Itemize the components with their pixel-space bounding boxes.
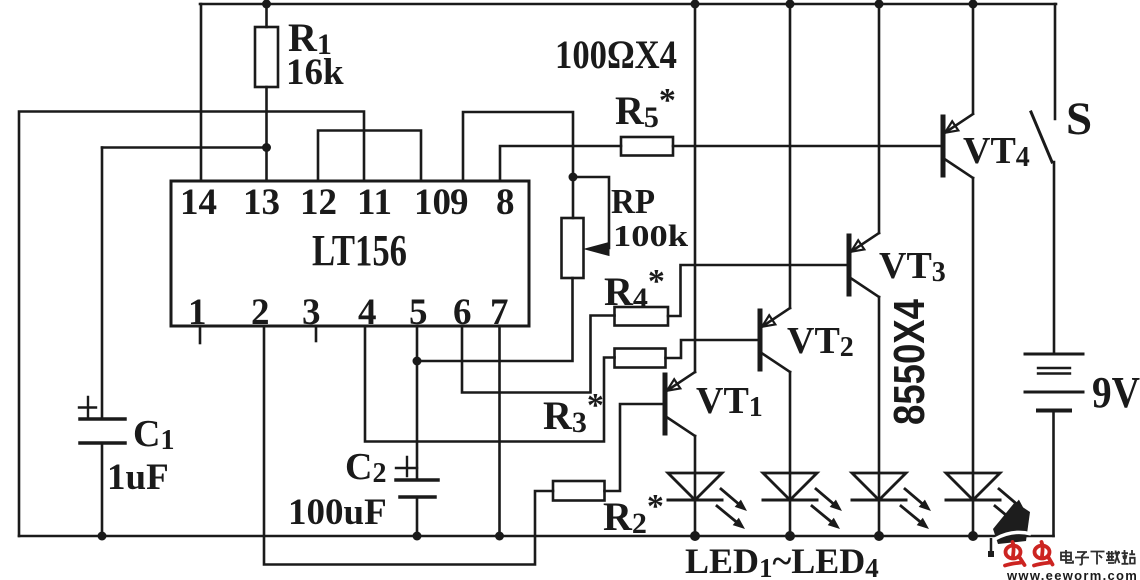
svg-text:R2*: R2* xyxy=(603,488,664,540)
resistor R1 xyxy=(255,4,278,181)
pin 3 stub xyxy=(315,326,318,341)
watermark bug char 2 xyxy=(1034,542,1053,566)
wire VT4 emitter to rail xyxy=(972,4,975,113)
wire pin11 to left rail xyxy=(19,112,364,537)
svg-text:14: 14 xyxy=(180,182,217,223)
svg-text:VT2: VT2 xyxy=(787,320,854,363)
wire VT3 emitter to rail xyxy=(878,4,881,233)
svg-text:R5*: R5* xyxy=(615,82,676,134)
junction R1 bottom / C1 branch xyxy=(262,143,271,152)
wire pin12-pin10 bridge xyxy=(318,131,421,182)
junction C1 on rail xyxy=(98,532,107,541)
svg-text:VT1: VT1 xyxy=(696,380,763,423)
junction LED4 on rail xyxy=(968,531,978,541)
svg-text:13: 13 xyxy=(243,182,280,223)
svg-text:11: 11 xyxy=(357,182,392,223)
svg-text:9V: 9V xyxy=(1092,368,1140,417)
wire RP bottom to pin5 xyxy=(417,278,573,361)
transistor VT3 (PNP 8550) xyxy=(849,233,879,297)
svg-text:RP: RP xyxy=(611,182,655,221)
junction VT2 rail xyxy=(786,0,795,9)
svg-text:R3*: R3* xyxy=(543,387,604,439)
svg-text:2: 2 xyxy=(251,292,270,333)
wire pin14 to top rail xyxy=(200,4,203,181)
watermark bug char 1 xyxy=(1005,542,1025,566)
svg-text:10: 10 xyxy=(414,182,451,223)
pin 1 stub xyxy=(199,326,202,343)
svg-text:www.eeworm.com: www.eeworm.com xyxy=(1006,568,1138,580)
svg-text:LT156: LT156 xyxy=(312,226,407,275)
svg-text:100uF: 100uF xyxy=(288,492,387,533)
LED LED3 xyxy=(852,473,931,536)
wire pin8 to R5 xyxy=(500,146,621,181)
svg-text:100ΩX4: 100ΩX4 xyxy=(555,32,677,77)
junction VT4 rail xyxy=(969,0,978,9)
svg-text:8550X4: 8550X4 xyxy=(885,299,934,425)
wire VT2 collector to LED2 xyxy=(789,372,792,473)
svg-text:9: 9 xyxy=(450,182,469,223)
wire pin2 to R2 left xyxy=(264,326,553,565)
resistor R5 xyxy=(621,137,673,156)
watermark text dianzi xiazai zhan xyxy=(1061,550,1135,565)
wire switch to battery xyxy=(1053,162,1056,352)
switch S top lead xyxy=(1054,4,1057,119)
capacitor C2 xyxy=(396,457,438,536)
svg-text:C2: C2 xyxy=(345,446,386,489)
junction R1 top on rail xyxy=(262,0,271,9)
wire VT4 collector to LED4 xyxy=(972,178,975,473)
resistor R2 xyxy=(553,481,605,501)
wire wiper tap to wiper xyxy=(573,177,609,248)
svg-text:C1: C1 xyxy=(133,413,174,456)
wire C1 top lead xyxy=(101,148,104,420)
wire pin6 to R4 left xyxy=(462,316,615,393)
junction RP wiper tap xyxy=(569,173,578,182)
switch S blade xyxy=(1031,112,1052,162)
junction pin7 on rail xyxy=(495,532,504,541)
resistor R4 xyxy=(615,307,669,326)
IC U1 LT156 body xyxy=(171,181,529,326)
junction LED3 on rail xyxy=(874,531,884,541)
wire battery to ground rail xyxy=(1052,411,1055,537)
svg-text:16k: 16k xyxy=(286,52,344,93)
svg-text:1: 1 xyxy=(188,292,207,333)
wire R2 to VT1 base xyxy=(605,404,666,491)
junction LED1 on rail xyxy=(690,531,700,541)
potentiometer RP xyxy=(562,218,610,278)
svg-text:VT3: VT3 xyxy=(879,245,946,288)
transistor VT2 (PNP 8550) xyxy=(760,308,790,372)
wire VT2 emitter to rail xyxy=(789,4,792,308)
svg-text:S: S xyxy=(1066,93,1092,145)
junction C2 on rail xyxy=(413,532,422,541)
wire +V top rail xyxy=(200,3,1056,6)
wire pin9 to RP top xyxy=(463,112,573,218)
transistor VT1 (PNP 8550) xyxy=(665,372,695,436)
junction pin5 / RP wire xyxy=(413,357,422,366)
resistor R3 xyxy=(615,349,666,368)
capacitor C1 xyxy=(79,397,125,536)
svg-text:VT4: VT4 xyxy=(963,130,1030,173)
svg-text:8: 8 xyxy=(496,182,515,223)
wire R5 to VT4 base xyxy=(673,145,943,148)
wire pin7 to ground rail xyxy=(498,326,501,536)
watermark cap logo xyxy=(988,502,1031,557)
wire pin5 down to C2 xyxy=(416,326,419,480)
svg-text:1uF: 1uF xyxy=(107,457,169,498)
wire VT3 collector to LED3 xyxy=(878,297,881,473)
svg-text:100k: 100k xyxy=(613,218,689,253)
wire VT1 emitter to rail xyxy=(694,4,697,372)
wire R4 to VT3 base xyxy=(668,265,849,316)
LED LED2 xyxy=(763,473,842,536)
svg-text:3: 3 xyxy=(302,292,321,333)
svg-text:4: 4 xyxy=(358,292,377,333)
svg-text:12: 12 xyxy=(300,182,337,223)
junction LED2 on rail xyxy=(785,531,795,541)
wire C1 branch horizontal xyxy=(102,146,267,149)
wire ground bottom rail xyxy=(19,535,1054,538)
LED LED1 xyxy=(668,473,747,536)
transistor VT4 (PNP 8550) xyxy=(943,114,973,178)
svg-text:LED1~LED4: LED1~LED4 xyxy=(685,541,879,580)
junction VT1 rail xyxy=(691,0,700,9)
battery BT 9V xyxy=(1025,354,1083,411)
wire R3 to VT2 base xyxy=(666,340,761,358)
wire pin4 to R3 left xyxy=(365,326,615,442)
wire VT1 collector to LED1 xyxy=(694,436,697,473)
junction VT3 rail xyxy=(875,0,884,9)
LED LED4 xyxy=(946,473,1025,536)
